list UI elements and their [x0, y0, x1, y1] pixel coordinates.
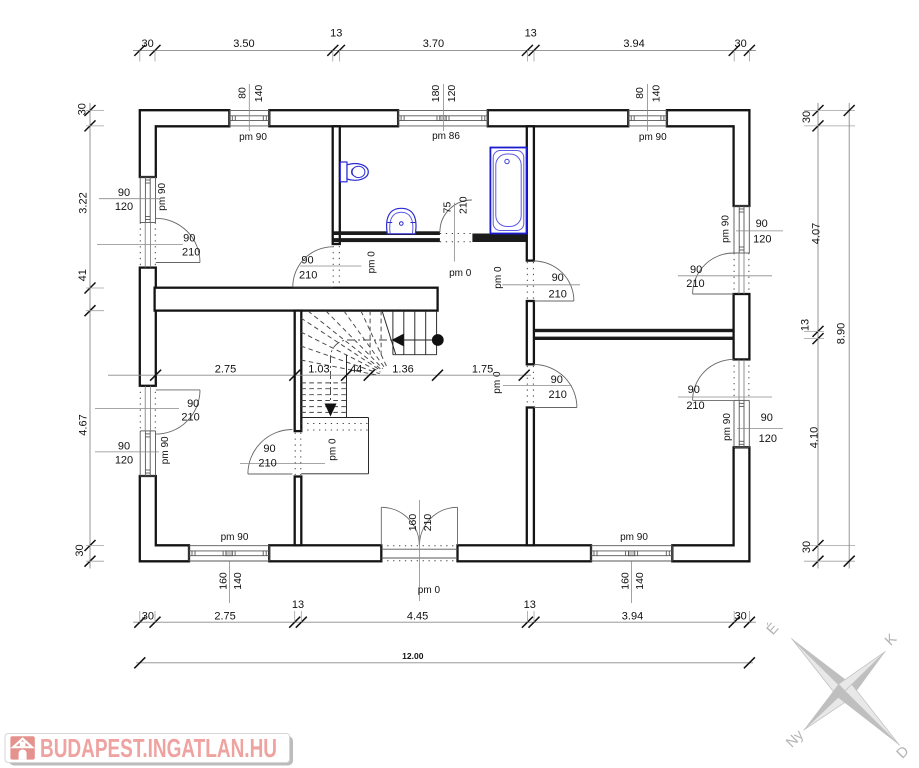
- watermark band: [5, 734, 290, 763]
- door D2 leader: [95, 408, 179, 410]
- window W7 dim 120: [115, 454, 133, 466]
- svg-text:90: 90: [301, 255, 313, 267]
- svg-text:pm 86: pm 86: [432, 131, 460, 142]
- door D6 swing arc: [248, 430, 293, 475]
- window W5 dim 140: [634, 572, 646, 590]
- right outer dim text 8.90: [835, 323, 847, 344]
- window W3 dim 80: [634, 87, 646, 99]
- exterior bottom-left corner wall L: [140, 476, 189, 561]
- svg-text:pm 90: pm 90: [620, 532, 648, 543]
- window W4 label pm 90: [221, 532, 249, 543]
- top dim 3.70: [423, 38, 444, 50]
- svg-text:30: 30: [141, 38, 153, 50]
- door D8 opening dotted: [734, 359, 749, 400]
- svg-text:3.94: 3.94: [622, 611, 643, 623]
- french door left swing arc: [381, 507, 419, 545]
- svg-text:3.70: 3.70: [423, 38, 444, 50]
- compass label Ny-west: [783, 727, 807, 751]
- window W8 dim 120: [753, 233, 771, 245]
- svg-text:80: 80: [634, 87, 646, 99]
- door D2 opening dotted: [140, 386, 155, 431]
- door D1 opening dotted: [140, 223, 155, 268]
- svg-text:BUDAPEST.INGATLAN.HU: BUDAPEST.INGATLAN.HU: [40, 733, 277, 763]
- svg-text:90: 90: [761, 412, 773, 424]
- left dim 30 bottom: [74, 544, 86, 556]
- svg-text:41: 41: [77, 269, 89, 281]
- stair side wall lower segment: [295, 477, 302, 546]
- door D8 leader: [678, 396, 772, 398]
- window W1 dim 80: [237, 87, 249, 99]
- left dim 3.22: [77, 192, 89, 213]
- door D7 dim 90: [690, 264, 702, 276]
- door D6 opening dotted: [295, 433, 301, 475]
- svg-text:120: 120: [115, 201, 133, 213]
- window W3 dim 140: [650, 85, 662, 103]
- stair down arrow: [325, 404, 337, 417]
- door D2 leaf: [156, 389, 200, 391]
- svg-text:90: 90: [756, 218, 768, 230]
- svg-text:4.45: 4.45: [407, 611, 428, 623]
- door D4 dim 210: [549, 288, 567, 300]
- stair bottom edge: [301, 417, 368, 419]
- stair winder treads: [301, 311, 387, 376]
- window W8 label pm 90: [720, 215, 731, 243]
- door D75 opening dotted: [440, 234, 473, 242]
- svg-text:3.94: 3.94: [623, 38, 644, 50]
- french door opening dotted: [381, 546, 457, 561]
- svg-text:13: 13: [330, 28, 342, 40]
- door D5 swing arc: [534, 365, 577, 408]
- hall/right-room partition middle segment: [527, 301, 534, 364]
- compass label K-east: [882, 631, 900, 649]
- stair walking line dashdot: [331, 340, 404, 403]
- stair lower flight right edge: [346, 355, 348, 418]
- watermark shadow: [9, 736, 293, 766]
- exterior top wall segment B (middle): [269, 110, 398, 126]
- stair landing edge: [301, 418, 368, 474]
- window W2 dim 120: [446, 85, 458, 103]
- svg-text:210: 210: [457, 196, 469, 214]
- window W5 label pm 90: [620, 532, 648, 543]
- svg-text:2.75: 2.75: [214, 611, 235, 623]
- door D1 dim 210: [182, 246, 200, 258]
- exterior bottom wall segment C: [458, 545, 592, 561]
- top dimension chain line+ticks: [133, 45, 756, 62]
- svg-text:44: 44: [350, 363, 362, 375]
- window W9 label pm 90: [722, 413, 733, 441]
- window W9 fraction leader: [737, 428, 783, 430]
- door D6 label pm 0: [328, 438, 339, 461]
- svg-text:4.10: 4.10: [808, 427, 820, 448]
- stair upper flight bottom edge: [393, 354, 437, 356]
- window W6 dim 90: [118, 187, 130, 199]
- bottom dim 2.75: [214, 611, 235, 623]
- door D4 opening dotted: [527, 262, 533, 300]
- window W6 90x120 left wall upper: [140, 177, 155, 223]
- hall/right-room partition upper segment: [527, 126, 534, 260]
- top dim 3.94: [623, 38, 644, 50]
- svg-text:30: 30: [801, 111, 813, 123]
- bathroom bottom wall right of door (under tub): [472, 234, 526, 243]
- right rooms divider wall band 2: [534, 337, 734, 340]
- door D1 leaf: [156, 262, 200, 264]
- stair upper flight treads: [370, 311, 426, 355]
- svg-text:30: 30: [735, 611, 747, 623]
- french door left leaf: [380, 507, 382, 545]
- svg-text:pm 90: pm 90: [639, 132, 667, 143]
- svg-text:90: 90: [263, 443, 275, 455]
- svg-text:210: 210: [549, 288, 567, 300]
- door D1 swing arc: [156, 218, 200, 262]
- exterior left wall segment B (middle): [140, 268, 156, 386]
- overall dimension line 12.00: [134, 657, 755, 668]
- svg-text:140: 140: [634, 572, 646, 590]
- stair upper flight right edge: [436, 311, 438, 355]
- hall/right-room partition lower segment: [527, 408, 534, 546]
- window W4 dim 160: [217, 572, 229, 590]
- window W8 dim 90: [756, 218, 768, 230]
- right inner dimension chain: [804, 103, 855, 569]
- compass rose star: [791, 638, 899, 745]
- door D6 dim 210: [258, 458, 276, 470]
- svg-text:90: 90: [690, 264, 702, 276]
- stair lower flight treads: [301, 383, 346, 413]
- window W9 dim 90: [761, 412, 773, 424]
- door D6 leaf: [248, 473, 293, 475]
- svg-text:4.07: 4.07: [811, 223, 823, 244]
- window W3 center leader: [647, 84, 649, 131]
- window W7 dim 90: [118, 441, 130, 453]
- door D3 opening dotted: [333, 246, 339, 286]
- svg-text:pm 0: pm 0: [449, 268, 472, 279]
- right dim 13: [800, 319, 812, 331]
- stair up arrow (left): [392, 334, 404, 346]
- svg-text:30: 30: [734, 38, 746, 50]
- window W7 label pm 90: [160, 436, 171, 464]
- window W7 fraction leader: [95, 451, 159, 453]
- french door label pm 0: [418, 585, 441, 596]
- svg-text:210: 210: [422, 514, 434, 532]
- french door dim 210: [422, 514, 434, 532]
- exterior top-left corner wall L: [140, 110, 230, 177]
- left dim 41: [77, 269, 89, 281]
- window W6 label pm 90: [157, 182, 168, 210]
- window W6 fraction leader: [99, 198, 159, 200]
- svg-text:210: 210: [182, 246, 200, 258]
- stair break line: [382, 311, 396, 354]
- window W4 160x140 bottom wall: [189, 546, 269, 561]
- door D3 dim 90: [301, 255, 313, 267]
- svg-text:90: 90: [688, 384, 700, 396]
- svg-text:8.90: 8.90: [835, 323, 847, 344]
- window W1 80x140 top wall: [229, 111, 269, 126]
- exterior right wall pier between door and divider: [734, 294, 750, 359]
- window W3 80x140 top wall: [628, 111, 667, 126]
- door D6 dim 90: [263, 443, 275, 455]
- door D3 leaf: [293, 286, 333, 288]
- svg-text:pm 0: pm 0: [366, 251, 377, 274]
- svg-text:120: 120: [115, 454, 133, 466]
- svg-text:12.00: 12.00: [402, 651, 424, 661]
- svg-text:210: 210: [686, 278, 704, 290]
- svg-text:90: 90: [552, 272, 564, 284]
- svg-text:pm 90: pm 90: [720, 215, 731, 243]
- top dim 30 right: [734, 38, 746, 50]
- door D8 leaf: [693, 399, 734, 401]
- svg-text:75: 75: [442, 202, 454, 214]
- svg-text:120: 120: [446, 85, 458, 103]
- compass label D-south: [894, 743, 913, 762]
- door D7 swing arc: [693, 253, 734, 294]
- svg-text:80: 80: [237, 87, 249, 99]
- door D7 leaf: [693, 293, 734, 295]
- svg-text:90: 90: [551, 374, 563, 386]
- svg-text:3.50: 3.50: [233, 38, 254, 50]
- window W6 dim 120: [115, 201, 133, 213]
- door D3 dim 210: [299, 270, 317, 282]
- bottom dim 13 left: [292, 599, 304, 611]
- svg-text:13: 13: [525, 28, 537, 40]
- exterior bottom-right corner wall L: [672, 447, 749, 561]
- door D5 dim 210: [549, 389, 567, 401]
- window W2 center leader: [442, 84, 444, 131]
- bathroom bottom wall upper band left: [333, 231, 440, 235]
- svg-text:90: 90: [118, 441, 130, 453]
- interior dim 1.75: [472, 363, 493, 375]
- door D4 label pm 0: [493, 266, 504, 289]
- door D7 opening dotted: [734, 253, 749, 294]
- svg-text:160: 160: [217, 572, 229, 590]
- right outer dimension line 8.90: [844, 103, 855, 569]
- window W2 180x120 top wall: [398, 111, 488, 126]
- svg-text:140: 140: [253, 85, 265, 103]
- svg-text:210: 210: [299, 270, 317, 282]
- exterior top-right corner wall L: [667, 110, 750, 206]
- right dim 30 bottom: [801, 541, 813, 553]
- svg-text:pm 90: pm 90: [239, 132, 267, 143]
- svg-text:1.36: 1.36: [392, 363, 413, 375]
- door D6 leader: [240, 463, 325, 465]
- door D1 dim 90: [183, 232, 195, 244]
- window W5 center leader: [631, 561, 633, 603]
- svg-text:pm 0: pm 0: [493, 266, 504, 289]
- wash basin: [387, 208, 416, 234]
- french door sill lines: [381, 549, 457, 558]
- door D3 swing arc: [293, 247, 333, 287]
- bottom dim 4.45: [407, 611, 428, 623]
- svg-text:1.75: 1.75: [472, 363, 493, 375]
- door D5 leader: [503, 384, 572, 386]
- svg-text:160: 160: [619, 572, 631, 590]
- svg-text:pm 90: pm 90: [160, 436, 171, 464]
- door D2 dim 90: [187, 398, 199, 410]
- french door right leaf: [457, 507, 459, 545]
- svg-text:120: 120: [753, 233, 771, 245]
- middle 41cm load wall: [155, 288, 438, 311]
- bathtub: [490, 148, 526, 234]
- svg-text:pm 90: pm 90: [722, 413, 733, 441]
- door D1 leader: [97, 244, 183, 246]
- door D7 dim 210: [686, 278, 704, 290]
- left dimension chain line+ticks: [85, 103, 105, 569]
- svg-text:90: 90: [183, 232, 195, 244]
- bottom dim 30 right: [735, 611, 747, 623]
- compass label E-north: [763, 619, 782, 638]
- bathroom left partition wall: [333, 126, 340, 244]
- bottom dimension chain line+ticks: [133, 611, 756, 628]
- svg-text:pm 0: pm 0: [418, 585, 441, 596]
- interior dim 44: [350, 363, 362, 375]
- svg-text:30: 30: [801, 541, 813, 553]
- interior dim 1.36: [392, 363, 413, 375]
- door D4 dim 90: [552, 272, 564, 284]
- top dim 30 left: [141, 38, 153, 50]
- bottom dim 30 left: [142, 611, 154, 623]
- right rooms divider wall band 1: [534, 329, 734, 332]
- window W1 center leader: [248, 84, 250, 131]
- door D2 dim 210: [181, 412, 199, 424]
- svg-text:2.75: 2.75: [215, 363, 236, 375]
- door D3 leader: [300, 265, 361, 267]
- interior dim 1.03: [308, 363, 329, 375]
- door D8 swing arc: [693, 359, 734, 400]
- door D2 swing arc: [156, 390, 200, 434]
- window W3 label pm 90: [639, 132, 667, 143]
- door D4 leader: [502, 284, 580, 286]
- svg-text:160: 160: [407, 514, 419, 532]
- svg-text:pm 0: pm 0: [492, 371, 503, 394]
- window W5 dim 160: [619, 572, 631, 590]
- door D5 opening dotted: [527, 366, 533, 406]
- svg-text:13: 13: [524, 599, 536, 611]
- door D75 swing arc: [440, 200, 472, 232]
- door D75 leader vertical: [453, 203, 455, 262]
- stair under-stair dotted edges: [301, 424, 368, 431]
- window W5 160x140 bottom wall: [591, 546, 672, 561]
- door D5 dim 90: [551, 374, 563, 386]
- svg-text:210: 210: [258, 458, 276, 470]
- window W1 label pm 90: [239, 132, 267, 143]
- door D75 dim 75: [442, 202, 454, 214]
- stair walking line solid: [404, 339, 438, 341]
- window W8 90x120 right wall upper: [734, 206, 749, 253]
- right dim 4.10: [808, 427, 820, 448]
- window W7 90x120 left wall lower: [140, 431, 155, 476]
- svg-text:90: 90: [187, 398, 199, 410]
- svg-text:210: 210: [686, 400, 704, 412]
- watermark text: [40, 733, 277, 763]
- french door dim 160: [407, 514, 419, 532]
- svg-text:pm 90: pm 90: [157, 182, 168, 210]
- bottom dim 13 right: [524, 599, 536, 611]
- window W4 center leader: [229, 561, 231, 603]
- svg-text:180: 180: [430, 85, 442, 103]
- door D75 dim 210: [457, 196, 469, 214]
- door D5 leaf: [534, 407, 577, 409]
- top dim 3.50: [233, 38, 254, 50]
- bottom dim 3.94: [622, 611, 643, 623]
- svg-text:30: 30: [142, 611, 154, 623]
- svg-text:120: 120: [759, 433, 777, 445]
- interior dimension chain: [108, 370, 531, 381]
- svg-text:210: 210: [549, 389, 567, 401]
- watermark house icon: [10, 736, 34, 759]
- toilet: [340, 162, 368, 182]
- svg-text:140: 140: [232, 572, 244, 590]
- exterior top wall segment C: [488, 110, 628, 126]
- top dim 13 right: [525, 28, 537, 40]
- window W2 label pm 86: [432, 131, 460, 142]
- exterior bottom wall segment B: [269, 545, 381, 561]
- window W9 dim 120: [759, 433, 777, 445]
- door D75 label pm 0: [449, 268, 472, 279]
- left dim 30 top: [76, 103, 88, 115]
- svg-text:13: 13: [292, 599, 304, 611]
- overall dim text 12.00: [402, 651, 424, 661]
- french door right swing arc: [420, 507, 458, 545]
- door D8 dim 210: [686, 400, 704, 412]
- svg-text:210: 210: [181, 412, 199, 424]
- top dim 13 left: [330, 28, 342, 40]
- svg-text:13: 13: [800, 319, 812, 331]
- door D8 dim 90: [688, 384, 700, 396]
- right dim 4.07: [811, 223, 823, 244]
- svg-text:90: 90: [118, 187, 130, 199]
- svg-text:3.22: 3.22: [77, 192, 89, 213]
- door D3 label pm 0: [366, 251, 377, 274]
- bathroom bottom wall lower band left: [333, 238, 440, 242]
- window W9 90x120 right wall lower: [734, 400, 749, 447]
- svg-text:pm 0: pm 0: [328, 438, 339, 461]
- french door center leader: [418, 500, 420, 601]
- stair newel dot: [432, 334, 444, 346]
- svg-text:140: 140: [650, 85, 662, 103]
- window W2 dim 180: [430, 85, 442, 103]
- door D5 label pm 0: [492, 371, 503, 394]
- door D4 leaf: [534, 300, 574, 302]
- right dim 30 top: [801, 111, 813, 123]
- door D7 leader: [678, 275, 772, 277]
- svg-text:1.03: 1.03: [308, 363, 329, 375]
- svg-text:30: 30: [74, 544, 86, 556]
- left dim 4.67: [77, 414, 89, 435]
- interior dim 2.75: [215, 363, 236, 375]
- window W1 dim 140: [253, 85, 265, 103]
- stair side wall upper segment: [295, 311, 302, 432]
- door D4 swing arc: [534, 261, 574, 301]
- svg-text:pm 90: pm 90: [221, 532, 249, 543]
- svg-text:30: 30: [76, 103, 88, 115]
- svg-text:4.67: 4.67: [77, 414, 89, 435]
- window W8 fraction leader: [736, 230, 783, 232]
- window W4 dim 140: [232, 572, 244, 590]
